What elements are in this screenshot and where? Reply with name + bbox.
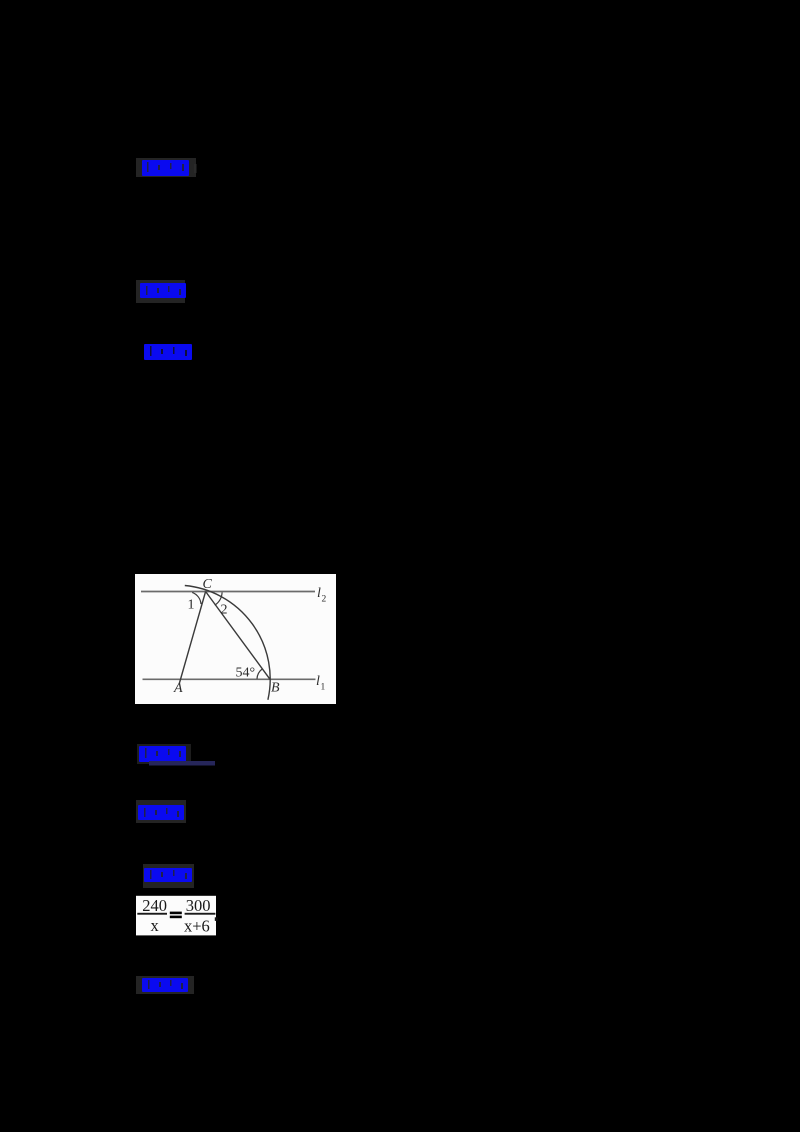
label 4 answer tag with blank underline: [135, 742, 219, 770]
angle 1 arc at C: [192, 592, 201, 604]
svg-text:2: 2: [221, 603, 228, 618]
svg-text:2: 2: [322, 595, 327, 605]
svg-text:240: 240: [142, 896, 167, 915]
label 6 detail tag: [141, 862, 197, 890]
label 1 answer tag: [134, 156, 200, 180]
svg-text:x+6: x+6: [184, 916, 210, 935]
svg-text:C: C: [203, 577, 213, 592]
line l1: [143, 678, 316, 680]
label 2 analysis tag: [134, 278, 194, 305]
svg-text:1: 1: [321, 683, 326, 693]
angle 54 arc at B: [257, 669, 262, 679]
trailing comma: [215, 917, 218, 921]
equation image 240/x = 300/(x+6): [136, 895, 220, 936]
svg-text:B: B: [271, 681, 280, 696]
fraction bar right: [185, 913, 216, 915]
line l2: [141, 591, 315, 593]
transversal C to A: [179, 592, 205, 684]
svg-text:l: l: [316, 674, 320, 689]
label 7 key point tag: [134, 974, 196, 996]
svg-text:1: 1: [188, 598, 195, 613]
svg-text:A: A: [173, 681, 183, 696]
svg-text:l: l: [317, 586, 321, 601]
svg-text:300: 300: [186, 896, 211, 915]
underline blank: [149, 761, 215, 766]
geometry figure: parallel lines l1 l2 cut by transversals from C: [135, 574, 336, 704]
fraction bar left: [137, 913, 167, 915]
transversal C to B: [206, 592, 270, 680]
label 3 detail tag: [142, 342, 196, 364]
label 5 analysis tag: [134, 798, 192, 826]
svg-text:54°: 54°: [236, 666, 256, 681]
svg-text:x: x: [151, 916, 160, 935]
angle 2 arc at C: [215, 592, 222, 605]
construction arc centered near A through C and B: [185, 586, 270, 700]
equals sign bold: [170, 912, 182, 915]
